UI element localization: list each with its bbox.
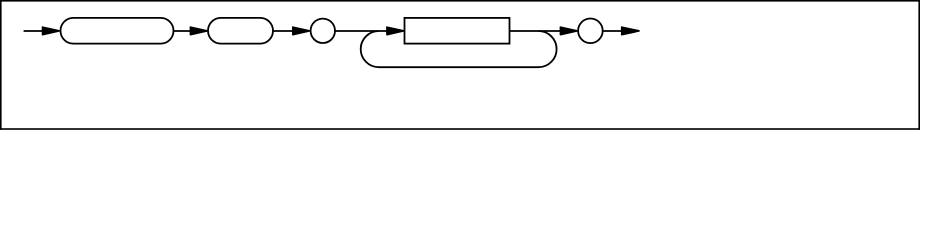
border frame left: [0, 0, 2, 130]
arrowhead: before T2: [191, 27, 207, 34]
arrowhead: before C2: [561, 27, 577, 34]
circle node C1: [311, 19, 335, 43]
border frame right: [918, 0, 920, 130]
border frame bottom: [0, 128, 920, 130]
wire: loop back under N1: [361, 31, 557, 67]
nonterminal rectangle N1: [405, 18, 510, 44]
wire: N1 to circle C2: [510, 30, 563, 32]
terminal pill T2: [208, 18, 273, 44]
wire: T2 to circle C1: [273, 30, 295, 32]
arrowhead: exit: [622, 27, 639, 34]
wire: entry line: [24, 30, 44, 32]
arrowhead: before C1: [293, 27, 309, 34]
terminal pill T1: [61, 18, 174, 44]
wire: exit line: [603, 30, 625, 32]
circle node C2: [578, 19, 603, 44]
arrowhead: before N1: [387, 27, 403, 34]
arrowhead: entry: [43, 27, 59, 34]
wire: C1 to rectangle N1: [335, 30, 388, 32]
border frame top: [0, 0, 920, 2]
wire: T1 to T2: [174, 30, 193, 32]
